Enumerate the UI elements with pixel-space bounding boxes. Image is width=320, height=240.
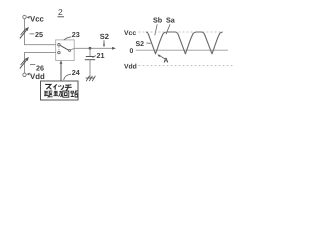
current source 25 [20, 27, 29, 39]
Vdd terminal [23, 72, 45, 81]
capacitor 21 [85, 48, 95, 77]
ground [86, 76, 96, 81]
wire to switch top contact [25, 43, 56, 46]
svg-text:21: 21 [97, 51, 105, 60]
svg-text:Vdd: Vdd [124, 63, 137, 70]
svg-text:Sa: Sa [166, 15, 176, 24]
drive circuit feed arrow [60, 60, 63, 81]
current source 26 [20, 57, 29, 69]
Vcc dashed level [139, 31, 223, 33]
label S2 with arrow [100, 32, 109, 48]
Vdd dashed level [139, 65, 235, 67]
svg-text:23: 23 [72, 30, 80, 39]
Sb leader [155, 24, 157, 35]
text スイッチ (drawn strokes) [45, 84, 72, 90]
Vcc terminal [23, 14, 45, 23]
wire to Vdd branch [25, 52, 56, 55]
S2 leader [146, 42, 151, 44]
output wire S2 [74, 47, 113, 49]
svg-text:0: 0 [130, 48, 134, 55]
wire Vcc to current source [24, 19, 26, 45]
svg-text:25: 25 [35, 30, 43, 39]
figure label 2 [58, 7, 65, 17]
svg-text:Vcc: Vcc [30, 14, 45, 23]
Sa leader [166, 24, 170, 34]
switch arm [60, 45, 69, 50]
svg-text:S2: S2 [100, 32, 109, 41]
point A annotation [157, 54, 168, 64]
label 24 [64, 68, 80, 80]
svg-text:24: 24 [72, 68, 80, 77]
junction node [89, 47, 92, 50]
label 23 [64, 30, 80, 40]
switch drive circuit box 24 [41, 81, 79, 100]
switch box 23 [56, 40, 74, 61]
waveform S2 [146, 32, 223, 54]
text 駆動回路 (drawn strokes) [44, 91, 78, 98]
switch contacts [58, 44, 60, 46]
label 25 [30, 30, 44, 39]
svg-text:Vdd: Vdd [30, 72, 45, 81]
zero axis line [136, 49, 228, 51]
svg-text:Vcc: Vcc [124, 30, 136, 37]
label 26 [30, 64, 44, 73]
svg-text:A: A [164, 58, 169, 65]
label 21 [93, 51, 105, 60]
output arrowhead [112, 47, 116, 50]
svg-text:2: 2 [58, 7, 63, 17]
contact link dotted [58, 47, 60, 52]
svg-text:Sb: Sb [153, 15, 163, 24]
svg-text:S2: S2 [136, 41, 145, 48]
